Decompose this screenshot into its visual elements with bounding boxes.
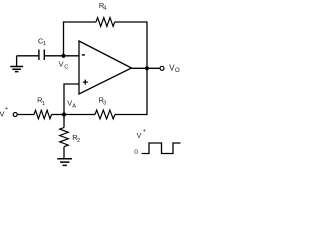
wire: node VA to R3 xyxy=(64,114,95,116)
svg-text:1: 1 xyxy=(43,41,46,47)
svg-text:V: V xyxy=(0,110,5,119)
svg-text:1: 1 xyxy=(42,101,45,107)
waveform: square wave of V+ xyxy=(142,143,181,154)
svg-text:2: 2 xyxy=(77,138,80,144)
svg-text:V: V xyxy=(59,60,64,69)
ground (left, at C1) xyxy=(16,56,18,66)
wire: op-amp output to VO terminal xyxy=(132,67,161,69)
resistor R3 xyxy=(95,110,115,119)
node VC (junction dot) xyxy=(61,54,65,58)
svg-text:O: O xyxy=(175,67,180,74)
op-amp non-inverting input marker (+) xyxy=(83,80,88,85)
terminal V+ (open circle) xyxy=(13,113,17,117)
terminal VO (open circle) xyxy=(160,66,164,70)
node VA (junction dot) xyxy=(62,112,66,116)
resistor R2 (vertical) xyxy=(63,115,65,128)
wire: C1 right plate to inverting input of op-amp xyxy=(44,55,79,57)
wire: R1 to node VA xyxy=(52,114,65,116)
op-amp inverting input marker (-) xyxy=(82,54,85,56)
wire: top feedback right segment from R4 down to output node xyxy=(115,22,147,68)
ground (bottom, under R2) xyxy=(57,159,72,166)
svg-text:+: + xyxy=(143,129,146,135)
resistor R4 xyxy=(96,18,115,27)
svg-text:3: 3 xyxy=(103,100,106,106)
svg-text:C: C xyxy=(64,65,68,71)
wire: from left ground to C1 left plate xyxy=(17,55,39,57)
wire: R3 right up to output node xyxy=(115,68,147,114)
wire: R2 to bottom ground xyxy=(63,147,65,158)
wire: V+ terminal to R1 xyxy=(17,114,34,116)
capacitor C1 xyxy=(39,50,44,61)
op-amp U1 triangle xyxy=(79,41,132,94)
wire: top feedback left segment from VC node up and right to R4 xyxy=(64,22,97,56)
svg-text:0: 0 xyxy=(134,149,138,156)
svg-text:A: A xyxy=(72,103,76,109)
svg-text:V: V xyxy=(137,133,142,140)
resistor R1 xyxy=(34,110,52,119)
wire: non-inverting input down to node VA xyxy=(64,84,79,115)
node at output (junction dot) xyxy=(145,66,149,70)
